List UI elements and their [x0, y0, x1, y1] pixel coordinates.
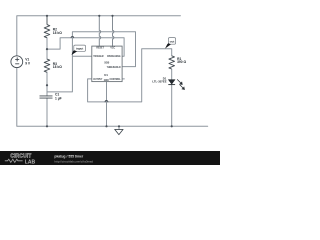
wire OUTPUT net to R1 top — [88, 49, 172, 102]
svg-text:18 kΩ: 18 kΩ — [53, 31, 62, 35]
svg-text:VCC: VCC — [110, 48, 115, 50]
wire hop mark at riser crossing — [71, 36, 74, 37]
svg-text:http://circuitlab.com/c/hz3mad: http://circuitlab.com/c/hz3mad — [54, 159, 93, 163]
svg-text:TRIGGER: TRIGGER — [93, 56, 104, 58]
logo zigzag — [5, 159, 23, 162]
op-amp U1 555 IC box — [92, 46, 122, 82]
wire LED to rail — [171, 85, 173, 127]
LED D1 — [168, 79, 184, 89]
wire R3 leads — [46, 49, 48, 85]
ground — [115, 129, 123, 134]
wire top rail from battery to right end — [17, 16, 181, 56]
svg-text:555: 555 — [104, 60, 109, 64]
resistor R3 — [44, 59, 50, 72]
svg-text:CONTROL: CONTROL — [109, 79, 121, 81]
node flag input — [72, 45, 86, 55]
wire CONTROL stub — [122, 78, 124, 80]
wire TRIGGER tap — [72, 55, 92, 57]
svg-text:390 Ω: 390 Ω — [177, 60, 186, 64]
wire VCC drop with crossing hops — [113, 16, 114, 46]
wire node A to DISCHARGE (net A) — [47, 38, 124, 57]
svg-text:18 kΩ: 18 kΩ — [53, 65, 62, 69]
wire R1 bottom to LED — [171, 69, 173, 80]
voltage source V1 — [11, 56, 23, 68]
svg-text:1 µF: 1 µF — [55, 96, 62, 100]
wire battery bottom and ground rail — [17, 68, 208, 127]
svg-text:input: input — [76, 47, 83, 51]
wire IC GND drop — [106, 82, 108, 127]
wire R2 bottom lead to node A — [46, 38, 48, 49]
svg-text:pkatug / 555 timer: pkatug / 555 timer — [54, 154, 84, 158]
wire node B tap to riser to net B horizontal to THRESHOLD — [47, 32, 136, 92]
junction dots — [46, 15, 173, 128]
capacitor C1 — [40, 96, 53, 98]
svg-text:RESET: RESET — [96, 48, 104, 50]
resistor R2 — [44, 16, 50, 38]
wire ground symbol stub — [118, 126, 120, 129]
wire hop mark at output/gnd crossing — [105, 101, 108, 102]
watermark bar — [0, 151, 220, 165]
node flag out — [165, 38, 176, 49]
wire node B to C1 and C1 to rail — [46, 85, 48, 126]
svg-text:LAB: LAB — [25, 159, 36, 165]
svg-text:THRESHOLD: THRESHOLD — [107, 67, 121, 69]
svg-text:GND: GND — [104, 80, 109, 82]
svg-text:DISCHARGE: DISCHARGE — [107, 55, 121, 58]
svg-text:OUTPUT: OUTPUT — [93, 79, 103, 81]
svg-text:9 V: 9 V — [25, 61, 31, 65]
resistor R1 — [169, 56, 175, 69]
svg-text:U1: U1 — [104, 73, 108, 77]
svg-text:LTL-307EE: LTL-307EE — [152, 80, 166, 84]
svg-text:out: out — [170, 40, 175, 44]
wire RESET drop with crossing hops — [99, 16, 100, 46]
